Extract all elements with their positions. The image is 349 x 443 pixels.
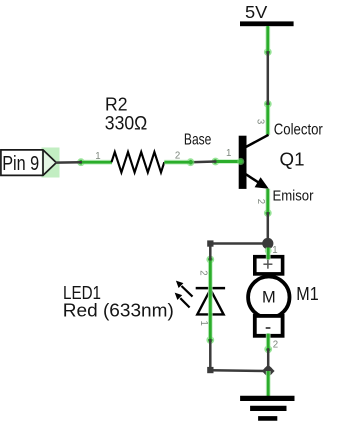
svg-text:2: 2	[273, 339, 278, 350]
LED1 triangle	[197, 290, 223, 315]
svg-text:1: 1	[226, 148, 231, 159]
svg-text:Q1: Q1	[280, 149, 305, 169]
LED1 light arrow lower shaft	[180, 298, 189, 307]
transistor Q1 emitter arrowhead	[255, 177, 269, 189]
svg-text:3: 3	[255, 119, 266, 124]
transistor Q1 emitter stroke	[244, 173, 259, 183]
emitter pin (transistor pin 2)	[265, 189, 270, 212]
transistor Q1 body bar	[239, 136, 247, 189]
svg-text:Base: Base	[184, 132, 212, 149]
base pin contact glow on bar	[237, 158, 244, 165]
transistor Q1 base pin (pin 1)	[217, 159, 240, 164]
wire endpoint dot (base wire left)	[187, 158, 195, 166]
wire 5V to collector	[267, 52, 270, 104]
svg-text:Pin 9: Pin 9	[2, 153, 39, 175]
svg-text:330Ω: 330Ω	[105, 113, 148, 134]
wire endpoint dot (LED bottom terminal)	[206, 336, 214, 344]
wire motor to ground junction	[267, 349, 270, 371]
wire bottom rail horizontal	[210, 369, 268, 372]
wire bendpoint square	[207, 240, 213, 246]
resistor R2 right pin	[164, 160, 189, 165]
motor M1 bottom pin	[266, 334, 271, 349]
motor M1 plus sign	[263, 260, 272, 269]
motor M1 bottom terminal box	[255, 316, 283, 336]
power symbol bar	[240, 21, 294, 26]
wire bendpoint square (bottom left)	[207, 367, 213, 373]
motor M1 top pin	[265, 247, 272, 259]
LED1 pin line through symbol	[208, 261, 213, 340]
junction dot (ground node)	[262, 365, 275, 378]
wire emitter to junction	[267, 213, 270, 244]
ground symbol bar 1	[240, 396, 294, 401]
wire endpoint dot (emitter terminal)	[264, 209, 272, 217]
pin highlight square on Pin 9 terminal	[42, 148, 60, 178]
svg-text:M1: M1	[296, 284, 318, 304]
LED1 light arrow upper head	[176, 281, 184, 288]
svg-text:Emisor: Emisor	[273, 188, 314, 204]
wire resistor to base	[191, 160, 216, 163]
ground symbol bar 3	[258, 416, 277, 421]
LED1 cathode bar	[196, 287, 225, 290]
svg-text:1: 1	[198, 321, 209, 326]
motor M1 top terminal box	[255, 257, 283, 274]
wire endpoint dot (base terminal)	[212, 158, 220, 166]
LED1 light arrow upper shaft	[182, 286, 193, 297]
ground symbol bar 2	[250, 406, 286, 411]
svg-text:2: 2	[255, 199, 266, 204]
collector pin (transistor pin 3)	[265, 105, 270, 135]
wire endpoint dot (resistor pin 1 terminal)	[77, 158, 85, 166]
svg-text:2: 2	[198, 270, 209, 275]
transistor Q1 collector stroke	[244, 135, 269, 148]
wire endpoint dot (LED top terminal)	[206, 256, 214, 264]
svg-text:R2: R2	[105, 95, 128, 115]
junction dot (emitter node)	[262, 238, 273, 249]
svg-text:1: 1	[272, 245, 277, 256]
wire bend down to LED	[209, 244, 212, 260]
resistor R2 zigzag	[112, 152, 165, 172]
wire Pin 9 to resistor	[56, 161, 81, 164]
svg-text:Colector: Colector	[274, 121, 323, 138]
resistor R2 left pin	[82, 160, 112, 165]
svg-text:Red (633nm): Red (633nm)	[63, 300, 174, 320]
svg-text:5V: 5V	[245, 2, 268, 22]
motor M1 circle	[248, 277, 289, 318]
svg-text:1: 1	[95, 151, 100, 162]
ground pin	[266, 371, 271, 397]
wire LED to bottom rail	[209, 340, 212, 370]
svg-text:2: 2	[175, 150, 180, 161]
net label Pin 9 flag	[1, 150, 56, 176]
svg-text:M: M	[262, 288, 276, 307]
motor M1 minus sign	[266, 327, 271, 329]
wire junction to LED branch (horizontal)	[210, 242, 267, 245]
wire endpoint dot (power pin terminal)	[264, 48, 272, 56]
wire endpoint dot (collector terminal)	[264, 100, 272, 108]
wire endpoint dot (motor bottom terminal)	[264, 345, 272, 353]
LED1 light arrow lower head	[175, 293, 183, 300]
power pin	[265, 26, 270, 51]
